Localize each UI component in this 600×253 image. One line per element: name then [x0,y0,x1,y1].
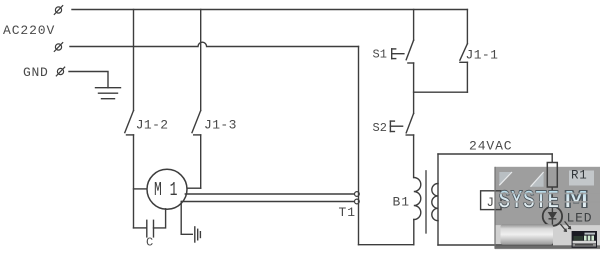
terminal GND phase symbol [56,67,64,76]
wire motor output upper [185,193,354,195]
svg-text:B1: B1 [393,195,410,210]
motor M1 [147,169,187,209]
wire rail L2 with hop over J1-3 wire [70,42,359,46]
svg-text:J: J [487,196,495,210]
svg-text:J1-2: J1-2 [136,118,169,133]
wire J1-2 to motor [134,188,148,190]
svg-text:SYSTE: SYSTE [499,186,560,215]
connector J2 box [481,191,501,210]
wire primary bottom rail [359,244,414,246]
terminal phase symbol L2 [54,43,62,52]
wire top rail L1 [72,9,467,11]
ground symbol at motor [195,227,201,242]
watermark overlay upper [495,167,600,225]
watermark dark logo stamp [572,231,597,248]
svg-text:AC220V: AC220V [3,23,55,38]
wire L2 down to primary loop [358,47,360,245]
transformer B1 secondary winding [432,184,438,221]
svg-text:M: M [564,186,589,216]
terminal circle T1 lower [355,199,360,204]
svg-text:C: C [146,236,153,250]
svg-text:S1: S1 [373,48,387,62]
watermark triangle left [499,172,512,185]
wire GND lead [69,72,108,88]
terminal circle T1 upper [355,192,360,197]
svg-text:M 1: M 1 [154,179,178,201]
svg-text:R1: R1 [571,169,588,183]
switch J1-3 [192,10,201,189]
switch J1-2 [125,10,134,228]
transformer B1 primary winding [414,178,421,220]
svg-text:J1-3: J1-3 [204,118,237,133]
wire J1-3 to motor [187,187,200,189]
svg-text:GND: GND [23,65,49,80]
svg-text:T1: T1 [339,205,356,220]
watermark triangle right [531,172,544,187]
watermark light square behind R1 [569,171,594,186]
LED indicator D1 [543,207,562,226]
switch J1-1 [460,10,468,93]
watermark overlay lower band [495,225,600,249]
wire J1-1 to S1/S2 net [414,91,468,93]
pushbutton S1 [392,10,414,114]
svg-text:24VAC: 24VAC [469,139,513,154]
wire motor output lower [182,201,355,203]
watermark cylinder [501,224,554,245]
svg-text:J1-1: J1-1 [466,48,499,63]
watermark bottom dark band [495,245,600,249]
ground symbol [96,88,121,99]
terminal phase symbol L1 [54,6,62,15]
capacitor C [134,209,166,237]
wire primary bottom lead [413,220,415,245]
svg-text:S2: S2 [373,121,387,135]
resistor R1 [547,163,557,188]
24VAC load box [438,154,552,245]
transformer B1 core [425,171,427,233]
pushbutton S2 [390,113,413,177]
motor ground branch [181,202,192,235]
LED emission arrows [561,222,571,231]
watermark left edge line [494,167,495,249]
watermark segment gap lines [497,193,600,195]
